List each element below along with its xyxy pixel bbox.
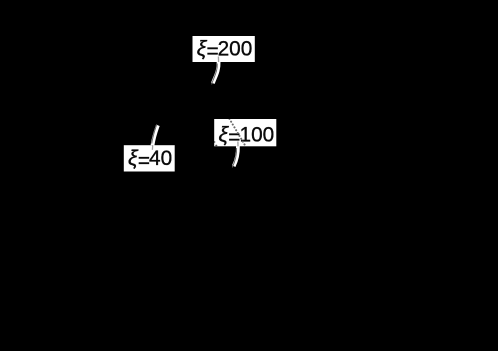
svg-text:ξ=100: ξ=100	[219, 123, 275, 149]
arrow stem inside box xi=100	[237, 142, 239, 147]
leader line for label xi=200	[212, 62, 219, 85]
second dotted curve at box corner	[213, 141, 215, 143]
leader line for label xi=100	[232, 146, 238, 167]
svg-text:ξ=200: ξ=200	[197, 37, 253, 63]
label box xi=200	[193, 36, 255, 63]
label box xi=40	[124, 145, 175, 172]
svg-text:ξ=40: ξ=40	[128, 146, 172, 172]
label box xi=100	[214, 119, 276, 149]
arrow stem inside box xi=200	[217, 57, 219, 63]
arrow stem inside box xi=40	[151, 145, 153, 150]
leader line for label xi=40	[152, 124, 158, 145]
dotted curve crossing xi=100 box	[213, 119, 246, 147]
